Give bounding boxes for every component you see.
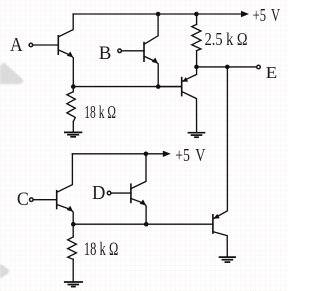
svg-text:18 k Ω: 18 k Ω bbox=[84, 104, 116, 123]
svg-text:18 k Ω: 18 k Ω bbox=[84, 240, 118, 260]
svg-text:E: E bbox=[266, 63, 278, 82]
svg-text:+5 V: +5 V bbox=[175, 146, 206, 165]
svg-text:A: A bbox=[10, 34, 23, 56]
svg-text:C: C bbox=[17, 188, 29, 210]
svg-text:2.5 k Ω: 2.5 k Ω bbox=[205, 31, 248, 50]
svg-text:B: B bbox=[99, 43, 112, 64]
svg-text:+5 V: +5 V bbox=[253, 6, 281, 26]
svg-text:D: D bbox=[92, 183, 105, 205]
